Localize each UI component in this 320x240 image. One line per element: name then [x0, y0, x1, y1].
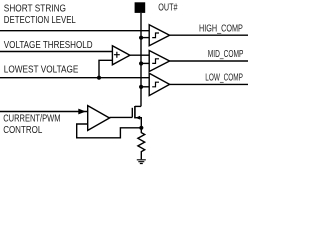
- comparator U2 (MID_COMP): [149, 51, 169, 72]
- wire: bus stub to U2 lower input: [141, 62, 149, 64]
- label: + input marking of U4: [114, 52, 120, 58]
- wire: CURRENT/PWM CONTROL input to U5: [0, 111, 88, 113]
- pin OUT# (output pad, filled square): [135, 2, 146, 13]
- node: junction on LOWEST VOLTAGE line: [97, 76, 101, 80]
- comparator U3 (LOW_COMP): [149, 73, 169, 95]
- transistor Q1 gate bar: [131, 108, 133, 118]
- wire: LOWEST VOLTAGE to U3 top input: [0, 77, 149, 79]
- symbol: hysteresis mark of U2: [152, 59, 159, 64]
- svg-text:VOLTAGE THRESHOLD: VOLTAGE THRESHOLD: [4, 40, 93, 51]
- svg-text:SHORT STRING: SHORT STRING: [4, 4, 66, 15]
- svg-text:HIGH_COMP: HIGH_COMP: [199, 23, 243, 34]
- comparator U1 (HIGH_COMP): [149, 25, 169, 46]
- wire: feedback from sense node to U5 inverting input: [77, 124, 142, 138]
- resistor R1 (current sense): [138, 128, 145, 159]
- svg-text:CONTROL: CONTROL: [3, 125, 43, 136]
- symbol: signal-flow arrowhead on CURRENT/PWM CONTROL wire: [78, 109, 86, 115]
- ground: [137, 160, 146, 164]
- symbol: hysteresis mark of U1: [152, 33, 159, 38]
- wire: bus stub to U1 lower input: [141, 37, 149, 39]
- svg-text:CURRENT/PWM: CURRENT/PWM: [3, 114, 60, 125]
- node: junction of bus with U2 lower input: [139, 61, 143, 65]
- wire: U4 lower input tap from LOWEST VOLTAGE: [99, 60, 112, 77]
- node: junction of bus with U1 lower input: [139, 36, 143, 40]
- wire: U2 output MID_COMP: [170, 60, 248, 62]
- wire: U3 output LOW_COMP: [170, 83, 248, 85]
- svg-text:LOW_COMP: LOW_COMP: [205, 73, 243, 84]
- wire: U5 output to Q1 gate: [110, 116, 133, 118]
- wire: OUT# vertical bus down to Q1 drain: [140, 13, 142, 107]
- wire: VOLTAGE THRESHOLD to U4 + input: [0, 51, 112, 53]
- svg-text:MID_COMP: MID_COMP: [208, 49, 244, 60]
- symbol: hysteresis mark of U3: [152, 82, 159, 87]
- node: junction of bus with U3 lower input: [139, 85, 143, 89]
- symbol: Q1 source arrow: [135, 116, 140, 120]
- wire: U1 output HIGH_COMP: [170, 34, 248, 36]
- node: junction at Q1 source / R1 / feedback: [139, 126, 143, 130]
- comparator U4 (voltage threshold comparator): [112, 46, 129, 65]
- wire: Q1 source lead down to sense node: [135, 118, 141, 128]
- wire: bus stub to U3 lower input: [141, 86, 149, 88]
- wire: U4 output to U2 input: [130, 54, 149, 56]
- svg-text:LOWEST VOLTAGE: LOWEST VOLTAGE: [4, 64, 79, 75]
- transistor Q1 channel bar: [134, 106, 136, 118]
- wire: SHORT STRING DETECTION LEVEL to U1 + input: [0, 30, 149, 32]
- svg-text:OUT#: OUT#: [158, 2, 177, 13]
- svg-text:DETECTION LEVEL: DETECTION LEVEL: [4, 15, 76, 26]
- wire: Q1 drain connection to bus: [135, 105, 141, 107]
- op-amp U5 (current control amplifier): [88, 106, 110, 131]
